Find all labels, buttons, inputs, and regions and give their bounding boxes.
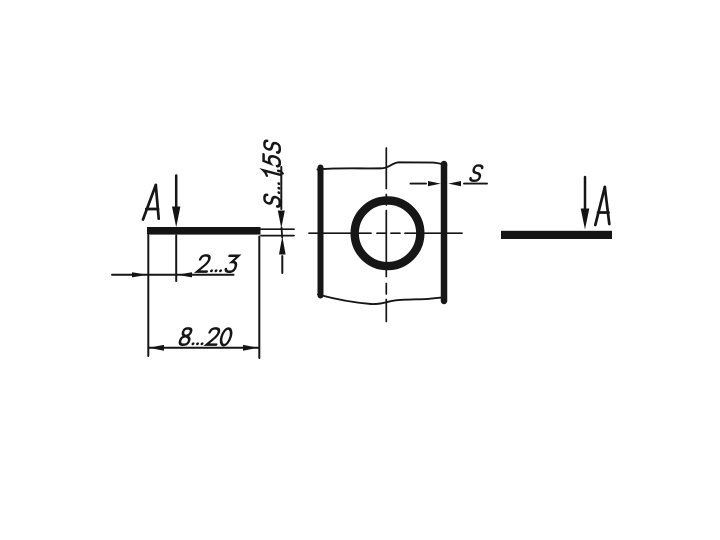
front view right edge (thick) (441, 164, 448, 301)
thickness label S (470, 165, 483, 180)
front view top break line (318, 162, 447, 169)
section arrow A (right), pointing down to plate (584, 177, 587, 209)
section arrow A (left), pointing down to plate (175, 176, 178, 209)
dimension line 8...20 (149, 347, 258, 349)
hole circle (355, 201, 421, 267)
arrowhead left-pointing outward (149, 345, 164, 351)
right extension line of plate (258, 237, 260, 359)
thickness dimension lower arrow (up) (281, 256, 283, 273)
plate side view bar (right view) (501, 231, 612, 239)
vertical centerline (385, 148, 387, 322)
front view bottom break line (318, 295, 444, 305)
dimension text 2...3 (197, 255, 239, 272)
dimension text 8...20 (179, 328, 233, 345)
arrowhead left-pointing at section line (177, 272, 192, 277)
horizontal centerline (309, 232, 462, 234)
thickness S dimension left line with right-pointing arrow (411, 183, 427, 185)
arrowhead right-pointing outward (243, 345, 258, 351)
left extension line of plate (147, 236, 149, 357)
view label A (right) (595, 187, 609, 225)
thickness dimension upper arrow (down) (280, 167, 282, 209)
thickness dimension line through plate edge (281, 228, 284, 238)
rotated thickness text S...1,5S (263, 140, 282, 208)
view label A (left) (143, 185, 159, 220)
front view left edge (thick) (318, 168, 324, 296)
extension of section arrow line below plate (175, 236, 177, 282)
thickness extension lines at right end of plate (261, 228, 294, 230)
plate side view bar (left view, section A-A) (147, 227, 261, 235)
dimension line 2...3 (112, 274, 234, 276)
arrowhead right-pointing at left edge (132, 272, 148, 277)
thickness S dimension right line with left-pointing arrow (464, 183, 487, 185)
